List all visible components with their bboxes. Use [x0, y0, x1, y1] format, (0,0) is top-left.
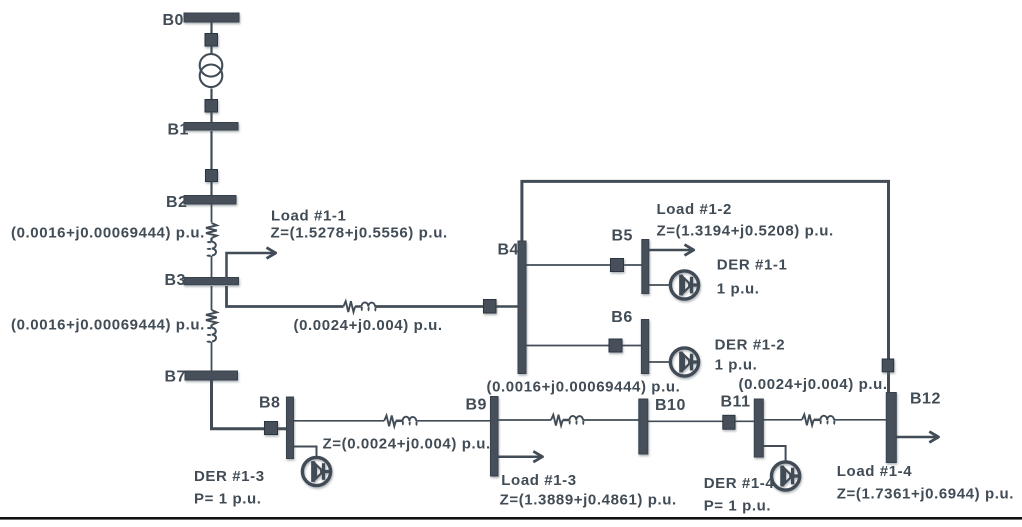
wire B7 to B8: [212, 380, 288, 429]
svg-text:B5: B5: [612, 228, 633, 245]
wire breaker to B1: [210, 112, 212, 124]
impedance Z line B3-B7 (zigzag resistor + coil): [206, 286, 217, 372]
bus B3: [184, 278, 239, 285]
bus B1: [184, 123, 238, 131]
bus B7: [185, 371, 238, 380]
wire B3 to line B3-B4: [227, 286, 344, 307]
svg-text:(0.0024+j0.004) p.u.: (0.0024+j0.004) p.u.: [739, 376, 888, 393]
svg-text:Load #1-4: Load #1-4: [837, 463, 912, 480]
svg-text:(0.0016+j0.00069444) p.u.: (0.0016+j0.00069444) p.u.: [11, 225, 205, 242]
svg-text:B4: B4: [498, 242, 519, 259]
bus B10 (vertical): [639, 399, 648, 454]
wire B6 to DER #1-2: [649, 361, 670, 363]
bus B6 (vertical): [641, 320, 648, 374]
svg-text:B0: B0: [163, 12, 184, 29]
bus B2: [184, 196, 236, 205]
tie line B4 to B12 (top): [522, 181, 889, 393]
breaker square on B12 drop: [882, 359, 894, 372]
svg-text:B3: B3: [165, 272, 186, 289]
svg-text:Load #1-2: Load #1-2: [657, 201, 732, 218]
wire B10 to B11: [648, 420, 755, 422]
svg-text:Z=(1.3194+j0.5208) p.u.: Z=(1.3194+j0.5208) p.u.: [657, 223, 834, 240]
svg-text:P= 1 p.u.: P= 1 p.u.: [704, 498, 772, 515]
svg-text:Z=(1.5278+j0.5556) p.u.: Z=(1.5278+j0.5556) p.u.: [271, 225, 448, 242]
svg-text:DER #1-1: DER #1-1: [717, 257, 788, 274]
wire transformer to breaker: [210, 89, 212, 100]
wire B9 to B10 with line impedance: [498, 415, 639, 426]
svg-text:(0.0016+j0.00069444) p.u.: (0.0016+j0.00069444) p.u.: [11, 317, 205, 334]
svg-text:B9: B9: [466, 397, 487, 414]
load arrow Load #1-4: [896, 436, 938, 439]
wire B0 to breaker: [210, 22, 212, 34]
wire B4 to B5: [526, 264, 642, 266]
DER #1-4 source symbol: [772, 462, 800, 490]
bus B11 (vertical): [754, 399, 763, 457]
svg-text:B6: B6: [611, 309, 632, 326]
svg-text:P= 1 p.u.: P= 1 p.u.: [194, 491, 262, 508]
svg-text:B11: B11: [721, 394, 751, 411]
DER #1-3 source symbol: [302, 457, 330, 485]
bottom border rule: [0, 517, 1022, 520]
DER #1-1 source symbol: [670, 271, 698, 299]
breaker square on B10-B11: [723, 415, 735, 429]
DER #1-2 source symbol: [670, 348, 698, 376]
svg-text:B12: B12: [910, 391, 941, 408]
bus B12 (vertical): [886, 393, 896, 463]
svg-text:(0.0016+j0.00069444) p.u.: (0.0016+j0.00069444) p.u.: [487, 379, 681, 396]
breaker square on B4-B6: [609, 339, 622, 352]
breaker square before B4: [484, 300, 497, 314]
breaker square on B4-B5: [611, 259, 624, 272]
wire to breaker before B4: [376, 305, 485, 308]
breaker square S2: [205, 100, 218, 113]
wire B11 to DER #1-4: [763, 446, 785, 462]
load arrow Load #1-1: [227, 253, 276, 278]
wire B4 to B6: [526, 345, 642, 347]
svg-text:B7: B7: [165, 369, 186, 386]
svg-text:Z=(1.7361+j0.6944) p.u.: Z=(1.7361+j0.6944) p.u.: [837, 486, 1014, 503]
svg-text:DER #1-4: DER #1-4: [704, 475, 775, 492]
wire B5 to DER #1-1: [649, 284, 670, 286]
bus B0: [184, 13, 239, 22]
svg-text:(0.0024+j0.004) p.u.: (0.0024+j0.004) p.u.: [294, 317, 443, 334]
load arrow Load #1-3: [498, 455, 542, 458]
wire B11 to B12 with line impedance: [763, 415, 886, 426]
svg-text:B2: B2: [166, 194, 187, 211]
svg-text:Z=(1.3889+j0.4861) p.u.: Z=(1.3889+j0.4861) p.u.: [500, 492, 677, 509]
bus B9 (vertical): [491, 397, 499, 477]
wire B1 to breaker: [210, 131, 212, 170]
wire B2 to impedance: [211, 204, 213, 223]
bus B4 (vertical): [518, 241, 526, 374]
breaker square S1: [205, 34, 218, 47]
load arrow Load #1-2: [649, 249, 693, 252]
svg-text:B1: B1: [168, 122, 189, 139]
breaker square on B7-B8: [265, 422, 278, 435]
wire impedance to B3: [211, 256, 213, 278]
wire breaker to B4: [496, 305, 519, 308]
svg-text:1 p.u.: 1 p.u.: [717, 281, 760, 298]
svg-text:B10: B10: [655, 397, 686, 414]
svg-text:Load #1-3: Load #1-3: [501, 472, 576, 489]
wire B8 to B9 with line impedance: [294, 416, 491, 427]
svg-text:Load #1-1: Load #1-1: [271, 208, 346, 225]
line impedance B3-B4 (zigzag resistor + coil): [343, 301, 376, 312]
wire B8 to DER #1-3: [294, 447, 317, 457]
impedance Z line B2-B3 (zigzag resistor + coil): [206, 223, 217, 256]
bus B8 (vertical): [287, 397, 294, 459]
bus B5 (vertical): [642, 240, 649, 294]
wire breaker to transformer: [210, 46, 212, 55]
wire breaker to B2: [210, 182, 212, 197]
svg-text:B8: B8: [259, 395, 280, 412]
svg-text:DER #1-2: DER #1-2: [715, 337, 786, 354]
svg-text:DER #1-3: DER #1-3: [194, 468, 265, 485]
breaker square S3: [206, 170, 218, 182]
transformer T1: [200, 54, 223, 87]
svg-text:Z=(0.0024+j0.004) p.u.: Z=(0.0024+j0.004) p.u.: [323, 436, 491, 453]
svg-text:1 p.u.: 1 p.u.: [715, 357, 758, 374]
